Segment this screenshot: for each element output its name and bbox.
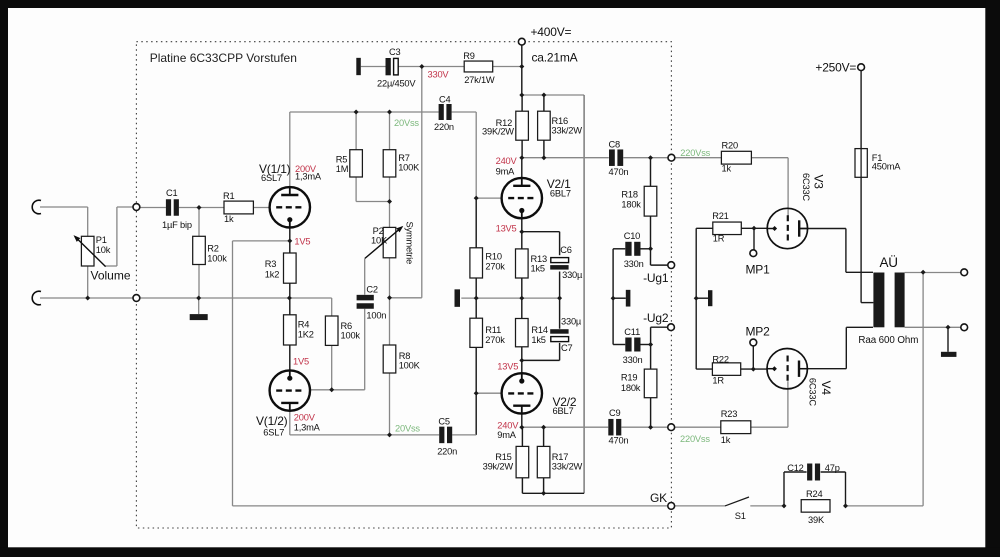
svg-text:6C33C: 6C33C	[801, 173, 811, 201]
svg-text:1,3mA: 1,3mA	[294, 423, 321, 433]
svg-text:13V5: 13V5	[496, 224, 517, 234]
svg-text:20Vss: 20Vss	[395, 424, 420, 434]
svg-text:6C33C: 6C33C	[808, 378, 818, 406]
svg-text:R2: R2	[207, 244, 219, 254]
svg-text:1k: 1k	[721, 435, 731, 445]
svg-text:R14: R14	[531, 325, 547, 335]
svg-text:1,3mA: 1,3mA	[295, 172, 322, 182]
svg-text:V(1/2): V(1/2)	[256, 414, 288, 428]
svg-text:P2: P2	[373, 226, 384, 236]
svg-text:33k/2W: 33k/2W	[552, 462, 583, 472]
svg-text:6SL7: 6SL7	[263, 428, 284, 438]
svg-text:S1: S1	[735, 511, 746, 521]
svg-text:R10: R10	[485, 252, 501, 262]
svg-text:470n: 470n	[609, 167, 629, 177]
svg-text:330µ: 330µ	[561, 316, 582, 326]
svg-text:ca.21mA: ca.21mA	[532, 50, 578, 64]
svg-text:Symmetrie: Symmetrie	[405, 222, 415, 265]
svg-text:22µ/450V: 22µ/450V	[377, 79, 416, 89]
svg-text:100k: 100k	[207, 254, 227, 264]
svg-text:100n: 100n	[366, 311, 386, 321]
svg-text:100K: 100K	[399, 361, 421, 371]
svg-text:C9: C9	[609, 408, 621, 418]
svg-text:33k/2W: 33k/2W	[552, 126, 583, 136]
svg-text:GK: GK	[650, 491, 667, 505]
svg-text:47p: 47p	[825, 463, 840, 473]
svg-text:R19: R19	[621, 373, 637, 383]
svg-text:V3: V3	[812, 175, 826, 190]
svg-text:450mA: 450mA	[872, 162, 901, 172]
svg-text:R21: R21	[712, 211, 728, 221]
svg-text:R5: R5	[336, 154, 348, 164]
svg-text:R15: R15	[495, 452, 511, 462]
svg-text:1M: 1M	[336, 164, 349, 174]
svg-text:1k2: 1k2	[265, 269, 279, 279]
svg-text:AÜ: AÜ	[880, 255, 898, 270]
svg-text:180k: 180k	[621, 383, 641, 393]
svg-text:200V: 200V	[294, 413, 316, 423]
svg-text:R23: R23	[721, 409, 737, 419]
svg-text:R9: R9	[463, 51, 475, 61]
svg-text:1R: 1R	[712, 375, 724, 385]
svg-text:9mA: 9mA	[496, 167, 516, 177]
svg-text:6BL7: 6BL7	[550, 189, 571, 199]
svg-text:100k: 100k	[341, 331, 361, 341]
svg-text:1k: 1k	[224, 214, 234, 224]
svg-text:MP2: MP2	[746, 325, 771, 339]
svg-text:100K: 100K	[398, 163, 420, 173]
svg-text:39k/2W: 39k/2W	[483, 462, 514, 472]
svg-text:13V5: 13V5	[497, 362, 518, 372]
svg-text:-Ug2: -Ug2	[643, 311, 669, 325]
svg-text:MP1: MP1	[746, 263, 771, 277]
svg-text:1V5: 1V5	[294, 236, 310, 246]
svg-text:C3: C3	[389, 47, 401, 57]
svg-text:C8: C8	[609, 140, 621, 150]
svg-text:-Ug1: -Ug1	[643, 271, 669, 285]
svg-text:10k: 10k	[96, 245, 111, 255]
svg-text:9mA: 9mA	[497, 430, 517, 440]
svg-text:Raa 600 Ohm: Raa 600 Ohm	[858, 335, 918, 346]
svg-text:Platine 6C33CPP Vorstufen: Platine 6C33CPP Vorstufen	[150, 51, 297, 65]
svg-text:470n: 470n	[609, 436, 629, 446]
svg-text:240V: 240V	[496, 156, 518, 166]
svg-text:39K: 39K	[808, 515, 825, 525]
svg-text:R13: R13	[531, 254, 547, 264]
svg-text:R20: R20	[722, 141, 738, 151]
svg-text:P1: P1	[96, 235, 107, 245]
svg-text:1R: 1R	[713, 234, 725, 244]
svg-text:330n: 330n	[623, 355, 643, 365]
svg-text:C10: C10	[624, 231, 640, 241]
svg-text:20Vss: 20Vss	[394, 118, 419, 128]
svg-text:39K/2W: 39K/2W	[482, 127, 514, 137]
svg-text:C1: C1	[166, 188, 178, 198]
svg-text:270k: 270k	[485, 335, 505, 345]
svg-text:R6: R6	[341, 321, 353, 331]
svg-text:10K: 10K	[371, 236, 388, 246]
svg-text:C4: C4	[439, 94, 451, 104]
svg-text:330V: 330V	[428, 70, 450, 80]
svg-text:C12: C12	[787, 463, 803, 473]
svg-text:1V5: 1V5	[293, 357, 309, 367]
svg-text:C11: C11	[624, 327, 640, 337]
svg-text:180k: 180k	[621, 199, 641, 209]
svg-text:C6: C6	[560, 245, 572, 255]
svg-text:220Vss: 220Vss	[680, 148, 710, 158]
svg-text:R22: R22	[712, 354, 728, 364]
svg-text:C7: C7	[561, 343, 573, 353]
svg-text:1k5: 1k5	[531, 264, 545, 274]
svg-text:R18: R18	[621, 190, 637, 200]
svg-text:1µF bip: 1µF bip	[162, 220, 192, 230]
svg-text:220n: 220n	[434, 122, 454, 132]
svg-text:R4: R4	[298, 320, 310, 330]
svg-text:1k: 1k	[722, 164, 732, 174]
svg-text:330n: 330n	[624, 259, 644, 269]
svg-text:6SL7: 6SL7	[261, 173, 282, 183]
svg-text:R17: R17	[552, 452, 568, 462]
svg-text:1K2: 1K2	[298, 330, 314, 340]
svg-text:C2: C2	[366, 285, 378, 295]
svg-text:220Vss: 220Vss	[680, 434, 710, 444]
svg-text:R1: R1	[223, 191, 235, 201]
svg-text:R11: R11	[485, 325, 501, 335]
svg-text:27k/1W: 27k/1W	[464, 75, 495, 85]
svg-text:R7: R7	[398, 153, 410, 163]
svg-text:C5: C5	[438, 417, 450, 427]
svg-text:Volume: Volume	[91, 269, 131, 283]
svg-text:+400V=: +400V=	[531, 25, 572, 39]
svg-text:270k: 270k	[485, 261, 505, 271]
svg-text:1k5: 1k5	[531, 335, 545, 345]
svg-text:V4: V4	[819, 381, 833, 396]
svg-text:330µ: 330µ	[562, 270, 583, 280]
svg-text:+250V=: +250V=	[815, 61, 856, 75]
svg-text:220n: 220n	[437, 447, 457, 457]
svg-text:R3: R3	[265, 259, 277, 269]
svg-text:R24: R24	[806, 489, 822, 499]
svg-text:6BL7: 6BL7	[553, 406, 574, 416]
